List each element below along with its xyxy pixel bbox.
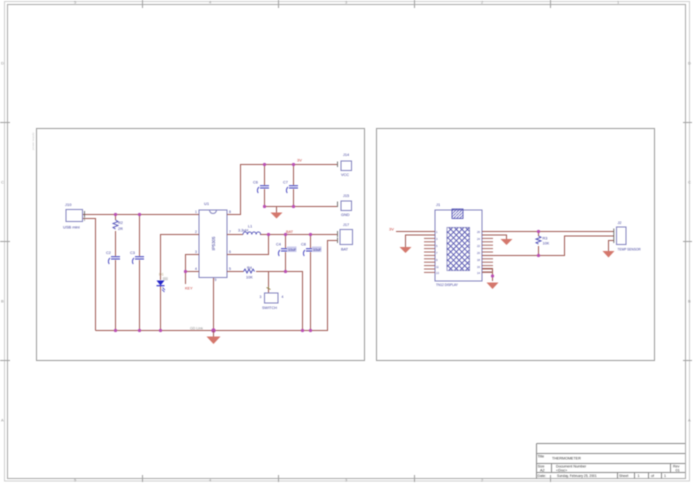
svg-text:1: 1 — [195, 210, 197, 214]
svg-text:B: B — [688, 299, 691, 304]
svg-text:3: 3 — [436, 237, 438, 241]
svg-text:10K: 10K — [246, 276, 253, 280]
svg-text:5: 5 — [74, 0, 77, 5]
wire display right pin1 to temp sensor pin1 — [482, 231, 614, 233]
svg-text:TEMP SENSOR: TEMP SENSOR — [618, 248, 642, 252]
capacitor C2 — [106, 251, 120, 264]
wire U1 pad pin down — [213, 278, 215, 331]
wire temp sensor pin3 to ground — [609, 241, 614, 252]
svg-text:C8: C8 — [301, 243, 306, 247]
left schematic block frame — [37, 129, 365, 361]
svg-text:R3: R3 — [543, 237, 548, 241]
svg-text:1: 1 — [436, 230, 438, 234]
svg-text:C: C — [688, 180, 691, 185]
IC U1 (IP5305 power SOC) — [195, 201, 231, 282]
wire J10 pin2 down to bottom rail — [83, 219, 96, 331]
wire U1 pin2 to LED — [161, 235, 196, 281]
wire display pin2 to ground — [406, 235, 436, 247]
connector J2 temp sensor — [614, 221, 642, 252]
wire J10 pin1 to U1 pin1 — [83, 214, 196, 216]
svg-text:C2: C2 — [106, 251, 111, 255]
svg-text:B: B — [1, 299, 4, 304]
svg-text:C4: C4 — [276, 243, 281, 247]
ground (right block, display left) — [400, 247, 412, 253]
svg-text:14: 14 — [477, 271, 480, 275]
svg-text:SWITCH: SWITCH — [262, 306, 277, 310]
svg-text:3V: 3V — [389, 227, 394, 232]
svg-text:A2: A2 — [540, 469, 545, 473]
svg-text:D: D — [688, 61, 691, 66]
switch SW1 — [260, 287, 284, 311]
wire switch drop — [268, 272, 270, 290]
connector J1 TN12 display — [424, 202, 493, 287]
svg-text:BAT: BAT — [286, 230, 294, 234]
wire display bottom pins to ground — [482, 269, 493, 282]
svg-text:1: 1 — [617, 0, 620, 5]
wire U1 pin5 to R4 — [231, 271, 244, 273]
svg-text:KEY: KEY — [185, 287, 193, 291]
wire R4 to riser x302 — [256, 272, 303, 331]
svg-text:1: 1 — [664, 474, 666, 478]
ground (left block, under C6/C7 rail) — [271, 207, 283, 219]
svg-text:Title: Title — [538, 455, 545, 459]
svg-text:U1: U1 — [204, 201, 210, 206]
svg-text:22: 22 — [477, 244, 480, 248]
svg-text:J1: J1 — [436, 202, 441, 207]
svg-text:01: 01 — [676, 469, 680, 473]
svg-text:9: 9 — [215, 278, 217, 282]
capacitor C3 — [130, 251, 144, 264]
svg-text:8: 8 — [229, 210, 231, 214]
svg-text:10uF: 10uF — [313, 248, 322, 252]
right schematic block frame — [377, 129, 655, 361]
left pin stubs — [424, 232, 435, 273]
resistor R2 — [113, 220, 123, 231]
wire R3 top stem — [538, 232, 540, 237]
connector J14 VCC — [338, 153, 352, 177]
svg-text:D1: D1 — [159, 273, 164, 277]
svg-text:3: 3 — [345, 0, 348, 5]
svg-text:J2: J2 — [618, 221, 622, 225]
svg-text:24: 24 — [477, 237, 480, 241]
resistor R4 — [244, 266, 255, 280]
svg-text:BAT: BAT — [341, 248, 349, 252]
wire 3V to display pin1 — [396, 231, 435, 233]
svg-text:3.3uH: 3.3uH — [238, 229, 248, 233]
svg-text:J14: J14 — [343, 153, 349, 157]
connector J17 BAT — [338, 223, 353, 252]
svg-text:GD Link: GD Link — [190, 327, 203, 331]
ground (right block, display right top) — [501, 239, 513, 245]
svg-text:6: 6 — [229, 250, 231, 254]
svg-text:4: 4 — [195, 267, 197, 271]
svg-text:C7: C7 — [283, 181, 288, 185]
svg-text:R2: R2 — [118, 221, 123, 225]
resistor R3 — [536, 236, 550, 246]
svg-text:A: A — [688, 418, 691, 423]
svg-text:9: 9 — [436, 258, 438, 262]
capacitor C7 — [283, 181, 298, 194]
svg-text:2R: 2R — [118, 227, 123, 231]
wire bottom rail — [96, 241, 338, 331]
pin numbers — [195, 210, 231, 282]
capacitor C6 — [253, 181, 269, 194]
svg-text:3: 3 — [195, 250, 197, 254]
wire C7 stem — [293, 165, 295, 186]
svg-text:VCC: VCC — [341, 173, 349, 177]
svg-text:C6: C6 — [253, 181, 258, 185]
svg-text:4: 4 — [209, 0, 212, 5]
ground (right block, display bottom) — [487, 283, 499, 290]
svg-text:of: of — [651, 474, 654, 478]
title block — [537, 444, 686, 479]
wire R2 node down — [115, 215, 117, 221]
svg-text:D: D — [1, 61, 4, 66]
connector J10 USB mini — [63, 202, 85, 230]
ground (right block, temp sensor) — [603, 251, 615, 258]
svg-text:16: 16 — [477, 265, 480, 269]
right pin stubs — [482, 232, 493, 273]
svg-text:J15: J15 — [343, 194, 349, 198]
capacitor C8 — [301, 243, 322, 257]
capacitor C4 — [276, 243, 297, 257]
connector J15 GND — [338, 194, 352, 217]
svg-text:C3: C3 — [130, 251, 135, 255]
ground (left block, bottom rail) — [207, 331, 221, 345]
svg-text:J17: J17 — [343, 223, 349, 227]
pin numbers column hints — [436, 230, 480, 275]
svg-text:TN12 DISPLAY: TN12 DISPLAY — [436, 283, 459, 287]
wire C3 vertical — [139, 215, 141, 257]
wire gnd rail — [265, 206, 338, 208]
svg-text:10uF: 10uF — [288, 248, 297, 252]
wire R3 bottom stem — [538, 246, 540, 256]
svg-text:18: 18 — [477, 258, 480, 262]
svg-text:10K: 10K — [543, 242, 550, 246]
svg-text:IP5305: IP5305 — [211, 236, 216, 250]
inductor L1 — [238, 225, 261, 235]
junction dots — [114, 163, 312, 333]
svg-text:R4: R4 — [247, 266, 252, 270]
wire LED to rail — [160, 286, 162, 331]
svg-text:4: 4 — [282, 295, 284, 299]
svg-text:C: C — [1, 180, 4, 185]
svg-text:2: 2 — [195, 230, 197, 234]
svg-text:GND: GND — [341, 213, 350, 217]
svg-text:<Doc>: <Doc> — [556, 469, 568, 473]
wire C8 stems — [310, 235, 312, 249]
svg-text:5: 5 — [229, 267, 231, 271]
wire C6 stem — [264, 165, 266, 186]
svg-text:A: A — [1, 418, 4, 423]
svg-text:11: 11 — [436, 265, 439, 269]
svg-text:USB mini: USB mini — [63, 225, 80, 230]
svg-text:THERMOMETER: THERMOMETER — [552, 457, 581, 461]
pin stubs — [195, 215, 231, 272]
wire DQ rail to temp sensor pin2 — [482, 236, 614, 256]
svg-text:Sheet: Sheet — [619, 474, 628, 478]
svg-text:7: 7 — [229, 230, 231, 234]
svg-text:L1: L1 — [248, 225, 252, 229]
svg-text:2: 2 — [481, 0, 484, 5]
svg-text:26: 26 — [477, 230, 480, 234]
svg-text:Date:: Date: — [538, 474, 547, 478]
wire U1 pin3/pin4 tie to KEY — [186, 255, 196, 285]
svg-text:3V: 3V — [297, 158, 302, 163]
svg-text:3: 3 — [260, 295, 262, 299]
wire U1 pin7 to L1 — [231, 234, 243, 236]
LED D1 — [157, 273, 168, 293]
right junctions — [491, 230, 540, 278]
wire U1 pin8 riser to 3V rail — [231, 165, 337, 215]
svg-text:13: 13 — [436, 271, 439, 275]
svg-text:1: 1 — [638, 474, 640, 478]
wire C4 stems — [285, 235, 287, 249]
svg-text:Sunday, February 25, 2001: Sunday, February 25, 2001 — [557, 474, 597, 478]
svg-text:power supply: power supply — [31, 132, 35, 150]
wire display right pin2 to ground — [482, 235, 507, 239]
wire U1 pin6 riser to node A — [231, 235, 269, 255]
svg-text:7: 7 — [436, 251, 438, 255]
svg-text:20: 20 — [477, 251, 480, 255]
wire L1 out to BAT connector — [260, 234, 337, 236]
svg-text:J10: J10 — [65, 202, 72, 207]
svg-text:5: 5 — [436, 244, 438, 248]
